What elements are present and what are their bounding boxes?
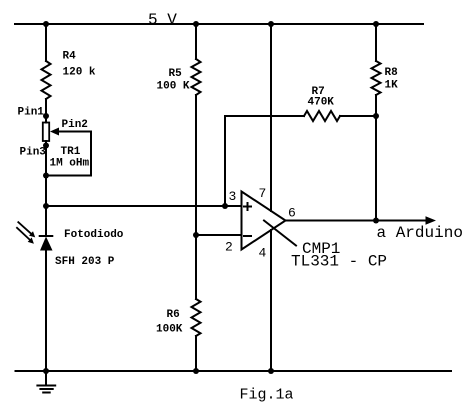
svg-text:7: 7 xyxy=(259,186,267,201)
svg-text:a Arduino: a Arduino xyxy=(377,224,463,242)
svg-text:Fig.1a: Fig.1a xyxy=(240,387,294,404)
svg-text:R4: R4 xyxy=(63,51,77,63)
svg-text:Fotodiodo: Fotodiodo xyxy=(64,229,124,241)
svg-text:100 K: 100 K xyxy=(157,81,190,93)
svg-text:4: 4 xyxy=(259,246,267,261)
svg-text:R5: R5 xyxy=(169,68,183,80)
svg-text:470K: 470K xyxy=(308,97,335,109)
svg-text:Pin3: Pin3 xyxy=(20,147,47,159)
svg-text:SFH 203 P: SFH 203 P xyxy=(55,256,115,268)
svg-text:1K: 1K xyxy=(385,80,399,92)
svg-text:TR1: TR1 xyxy=(61,146,81,158)
svg-text:R8: R8 xyxy=(385,67,399,79)
svg-text:Pin2: Pin2 xyxy=(62,119,88,131)
svg-text:5 V: 5 V xyxy=(148,11,177,29)
svg-text:TL331 - CP: TL331 - CP xyxy=(291,253,387,271)
svg-text:100K: 100K xyxy=(156,324,183,336)
svg-text:6: 6 xyxy=(288,206,296,221)
svg-text:1M oHm: 1M oHm xyxy=(50,158,90,170)
svg-text:120 k: 120 k xyxy=(63,67,96,79)
svg-text:R6: R6 xyxy=(167,309,180,321)
svg-text:2: 2 xyxy=(225,240,233,255)
svg-text:Pin1: Pin1 xyxy=(18,107,45,119)
svg-text:3: 3 xyxy=(229,189,237,204)
